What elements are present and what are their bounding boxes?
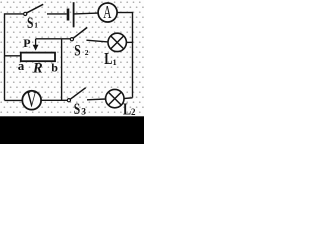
svg-text:2: 2 — [85, 48, 89, 57]
wire top-left horizontal — [5, 13, 24, 15]
ammeter A1 circle — [98, 3, 117, 22]
svg-text:S: S — [27, 15, 34, 32]
svg-text:A: A — [103, 4, 111, 23]
switch S1 blade — [27, 4, 44, 13]
black band bottom — [0, 116, 144, 144]
wire right vertical — [132, 12, 134, 98]
lamp L1 cross — [111, 36, 124, 49]
switch S3 pivot — [67, 99, 70, 102]
wire battery to ammeter — [75, 12, 99, 15]
svg-text:V: V — [26, 88, 37, 113]
wire P to node — [36, 38, 71, 40]
battery positive plate — [73, 2, 75, 27]
voltmeter V1 circle — [22, 91, 41, 110]
svg-text:b: b — [51, 61, 58, 75]
switch S3 blade — [70, 88, 85, 100]
svg-text:P: P — [23, 36, 30, 50]
switch S2 pivot — [70, 38, 73, 41]
wire S3 to lamp L2 — [87, 98, 106, 101]
wire ammeter to top-right corner — [117, 12, 132, 14]
lamp L1 circle — [108, 33, 126, 51]
switch S1 pivot — [24, 12, 27, 15]
lamp L2 cross — [108, 92, 121, 105]
svg-text:a: a — [18, 58, 25, 73]
wire rheostat feed — [5, 55, 21, 57]
wire L1 to right wire — [126, 41, 132, 43]
switch S2 blade — [73, 27, 87, 38]
svg-text:2: 2 — [131, 107, 136, 117]
lamp L2 circle — [106, 89, 124, 107]
svg-text:3: 3 — [81, 107, 86, 117]
wire S2 to lamp L1 — [86, 40, 108, 42]
slider P stem — [35, 39, 37, 46]
battery negative plate — [67, 9, 70, 21]
wire L2 to right wire — [124, 97, 133, 100]
svg-text:S: S — [74, 43, 81, 60]
rheostat R box — [21, 53, 55, 62]
svg-text:1: 1 — [34, 21, 38, 29]
wire bottom-left horizontal — [5, 99, 23, 101]
svg-text:R: R — [32, 61, 43, 77]
wire node drop vertical — [61, 39, 63, 101]
slider P arrowhead — [33, 45, 39, 51]
svg-text:L: L — [104, 50, 112, 68]
svg-text:1: 1 — [113, 58, 117, 67]
svg-text:S: S — [74, 101, 81, 118]
wire S1 to battery — [47, 13, 67, 15]
wire left vertical — [4, 13, 6, 100]
wire voltmeter to S3 — [41, 99, 67, 101]
